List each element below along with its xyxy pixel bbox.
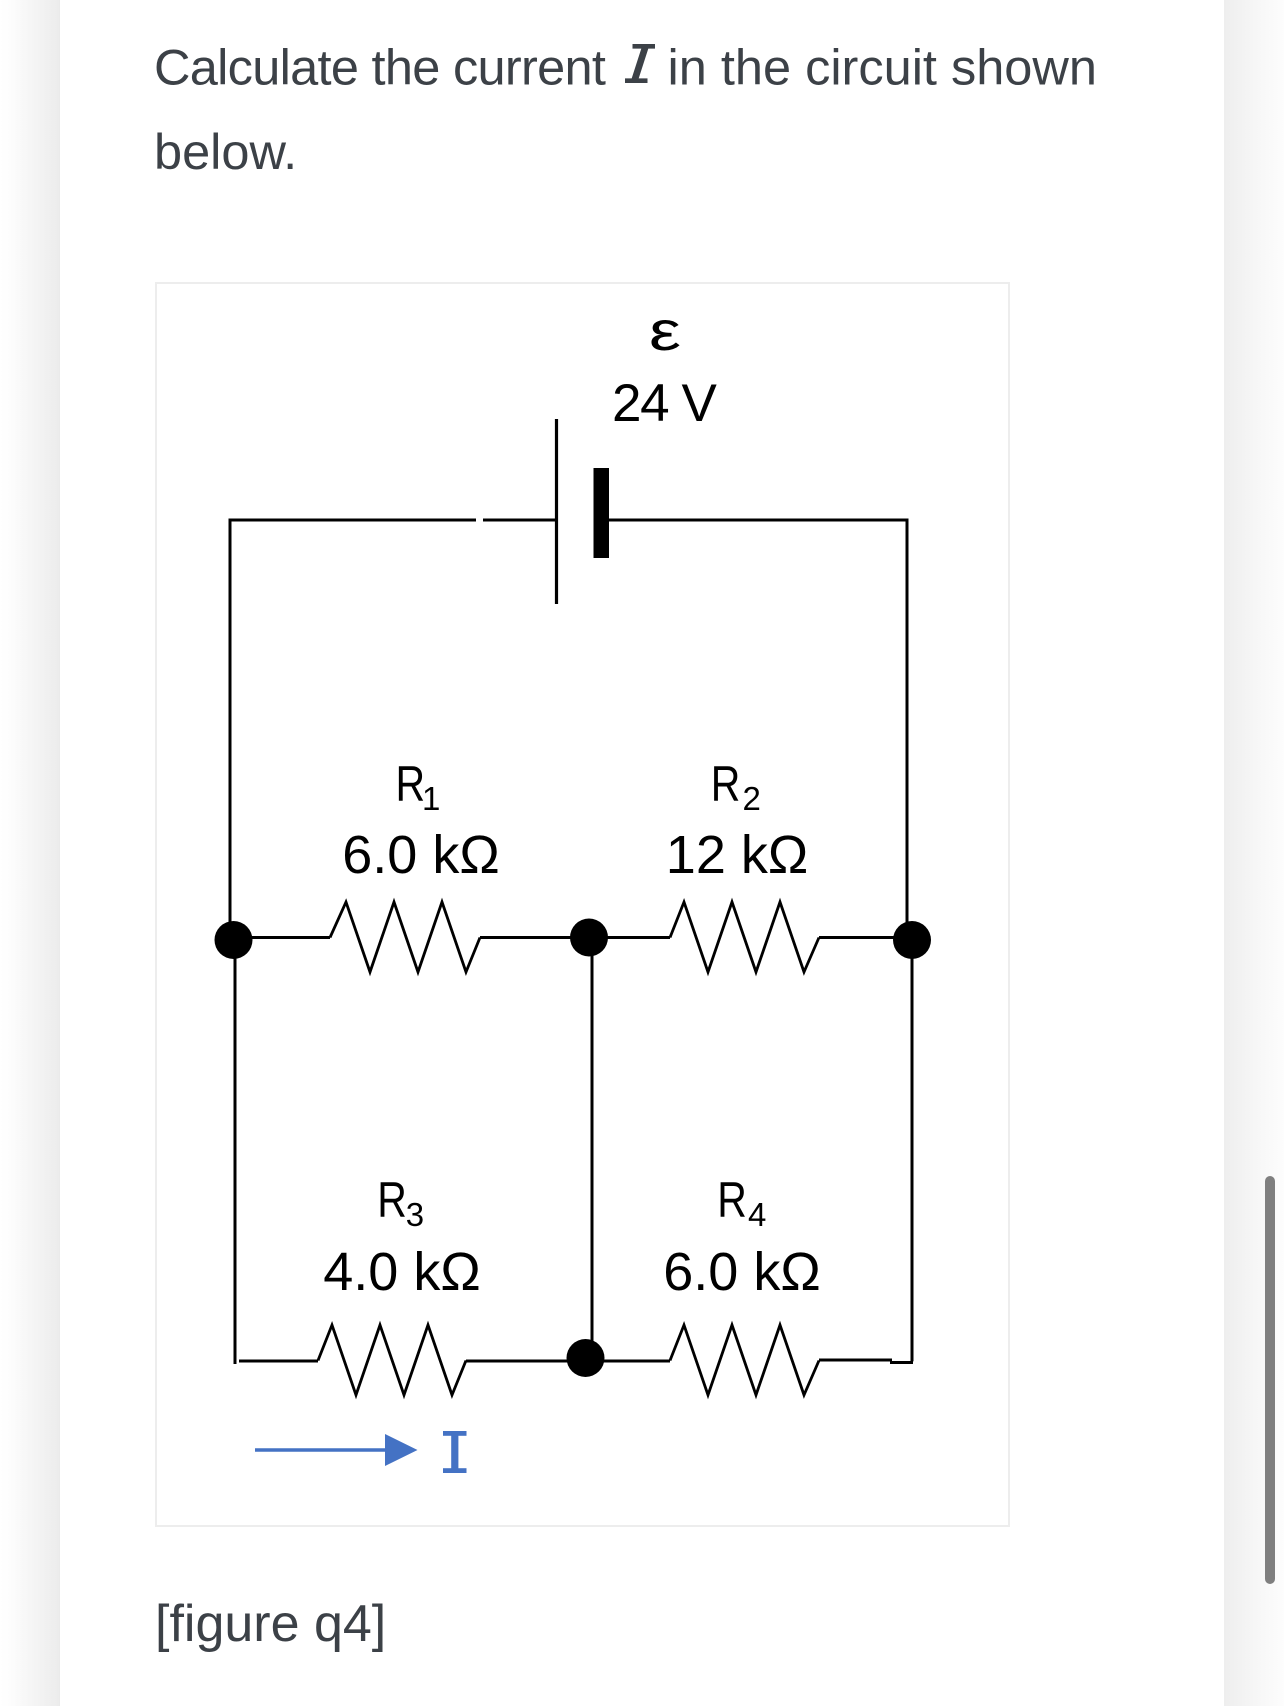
node A (left junction) <box>215 921 253 959</box>
wire: middle node to R2 <box>589 936 670 939</box>
battery cell short thick plate <box>594 468 610 558</box>
wire: R2 to right node <box>819 936 907 939</box>
wire: top left segment <box>230 519 476 522</box>
svg-text:6.0 kΩ: 6.0 kΩ <box>663 1242 820 1302</box>
figure frame <box>155 282 1010 1527</box>
label I <box>443 1431 467 1473</box>
right page-curl gutter <box>1224 0 1284 1706</box>
resistor R4 zigzag <box>670 1325 819 1395</box>
svg-text:R: R <box>717 1172 747 1228</box>
svg-text:4.0 kΩ: 4.0 kΩ <box>323 1242 480 1302</box>
node B (middle junction) <box>570 919 608 957</box>
svg-text:12 kΩ: 12 kΩ <box>666 825 808 885</box>
svg-text:R: R <box>711 756 741 812</box>
left page-curl gutter <box>0 0 60 1706</box>
wire: bottom right corner jog <box>890 1361 913 1364</box>
svg-text:in the circuit shown: in the circuit shown <box>668 39 1097 96</box>
wire: bottom left corner to R3 <box>239 1360 318 1363</box>
svg-text:24 V: 24 V <box>612 374 717 433</box>
svg-text:[figure q4]: [figure q4] <box>155 1595 386 1653</box>
wire: right vertical lower <box>911 940 914 1361</box>
current arrow head <box>385 1434 418 1466</box>
svg-text:4: 4 <box>748 1196 766 1233</box>
wire: R1 to middle node <box>480 936 589 939</box>
wire: right vertical upper <box>906 519 909 941</box>
resistor R1 zigzag <box>330 902 480 972</box>
svg-text:2: 2 <box>743 780 761 817</box>
wire: resistor row left node to R1 <box>233 936 330 939</box>
svg-text:Calculate the current: Calculate the current <box>154 39 606 96</box>
wire: R3 to bottom node <box>466 1360 585 1363</box>
svg-text:ε: ε <box>649 300 681 363</box>
wire: left vertical lower <box>234 940 237 1364</box>
scrollbar <box>1265 1176 1275 1584</box>
resistor R2 zigzag <box>670 902 819 972</box>
node D (bottom junction) <box>567 1339 605 1377</box>
wire: R4 to bottom right corner <box>819 1359 892 1362</box>
node C (right junction) <box>893 921 931 959</box>
svg-text:R: R <box>396 756 426 812</box>
wire: left vertical upper <box>229 519 232 941</box>
wire: middle vertical <box>591 937 594 1357</box>
svg-text:R: R <box>377 1172 407 1228</box>
svg-text:below.: below. <box>154 123 297 180</box>
resistor R3 zigzag <box>318 1325 466 1395</box>
wire: top mid segment to battery <box>483 519 555 522</box>
svg-text:3: 3 <box>406 1196 424 1233</box>
svg-text:1: 1 <box>422 780 440 817</box>
wire: top right segment from battery <box>609 519 907 522</box>
math italic I in heading <box>625 44 655 83</box>
svg-text:6.0 kΩ: 6.0 kΩ <box>342 825 499 885</box>
battery cell long thin plate <box>555 419 558 604</box>
current arrow shaft <box>255 1448 390 1451</box>
wire: bottom node to R4 <box>585 1360 670 1363</box>
